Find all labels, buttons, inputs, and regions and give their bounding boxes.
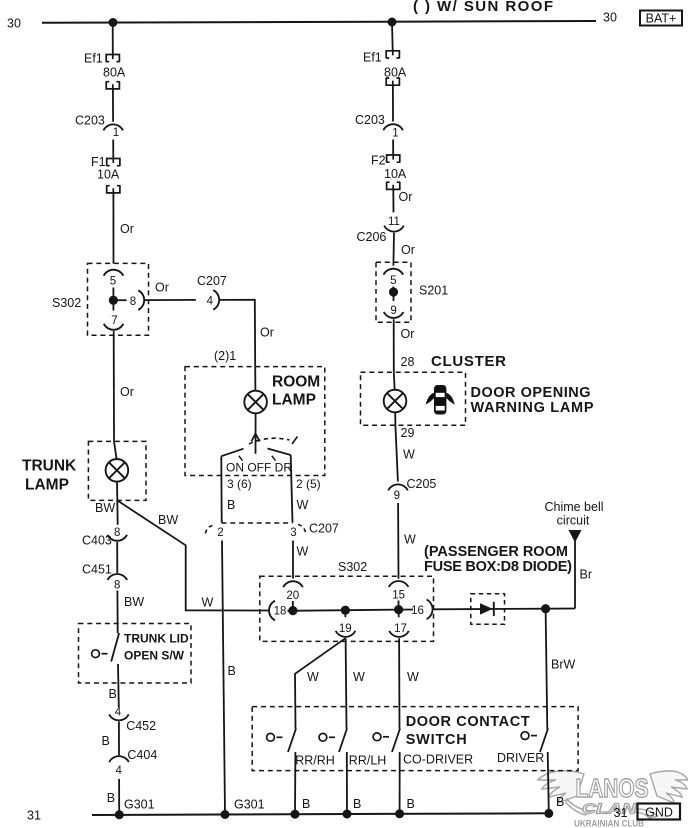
svg-text:8: 8 <box>130 296 136 308</box>
svg-text:C403: C403 <box>82 534 112 548</box>
svg-text:B: B <box>302 797 310 811</box>
svg-text:2: 2 <box>217 527 223 539</box>
svg-text:BW: BW <box>124 595 144 609</box>
svg-text:B: B <box>556 795 564 809</box>
svg-text:4: 4 <box>207 296 214 308</box>
svg-text:29: 29 <box>401 426 415 440</box>
svg-text:Or: Or <box>401 327 415 341</box>
svg-text:C207: C207 <box>197 274 227 288</box>
svg-text:BrW: BrW <box>551 658 576 672</box>
svg-text:16: 16 <box>411 605 424 617</box>
svg-text:7: 7 <box>111 315 117 327</box>
svg-text:5: 5 <box>390 275 396 287</box>
svg-text:B: B <box>228 664 236 678</box>
svg-text:17: 17 <box>394 623 407 635</box>
svg-text:B: B <box>107 791 115 805</box>
svg-text:31: 31 <box>27 809 41 823</box>
svg-text:19: 19 <box>339 623 352 635</box>
svg-text:Chime bell: Chime bell <box>544 500 603 514</box>
svg-text:9: 9 <box>394 490 400 502</box>
svg-text:Ef1: Ef1 <box>363 51 382 65</box>
svg-text:8: 8 <box>114 580 120 592</box>
svg-text:80A: 80A <box>103 66 126 80</box>
svg-text:( ) W/ SUN ROOF: ( ) W/ SUN ROOF <box>413 0 553 15</box>
svg-text:C203: C203 <box>355 113 385 127</box>
svg-text:BW: BW <box>158 513 178 527</box>
svg-text:S302: S302 <box>52 296 81 310</box>
svg-text:20: 20 <box>286 590 299 602</box>
svg-text:Or: Or <box>260 326 274 340</box>
svg-text:W: W <box>407 670 419 684</box>
svg-text:1: 1 <box>113 127 119 139</box>
svg-text:30: 30 <box>603 11 617 25</box>
svg-text:RR/RH: RR/RH <box>295 754 335 768</box>
svg-text:C203: C203 <box>75 114 105 128</box>
svg-text:(2)1: (2)1 <box>214 349 236 363</box>
svg-text:CO-DRIVER: CO-DRIVER <box>403 753 473 767</box>
svg-text:W: W <box>297 498 309 512</box>
svg-text:5: 5 <box>110 276 116 288</box>
svg-text:WARNING LAMP: WARNING LAMP <box>471 400 594 416</box>
svg-text:8: 8 <box>114 527 120 539</box>
svg-text:Or: Or <box>120 222 134 236</box>
svg-text:ON OFF DR: ON OFF DR <box>226 461 292 475</box>
svg-text:28: 28 <box>401 355 415 369</box>
svg-text:W: W <box>297 545 309 559</box>
svg-text:UKRAINIAN CLUB: UKRAINIAN CLUB <box>574 819 644 828</box>
svg-text:BW: BW <box>95 501 115 515</box>
svg-text:SWITCH: SWITCH <box>406 732 467 748</box>
svg-text:W: W <box>307 670 319 684</box>
svg-text:18: 18 <box>274 606 287 618</box>
svg-text:10A: 10A <box>384 167 407 181</box>
svg-text:BAT+: BAT+ <box>646 11 677 25</box>
svg-text:Ef1: Ef1 <box>84 52 103 66</box>
svg-text:CLUSTER: CLUSTER <box>431 353 506 370</box>
svg-text:ROOM: ROOM <box>272 374 320 391</box>
svg-text:Or: Or <box>155 281 169 295</box>
svg-text:4: 4 <box>115 706 122 718</box>
svg-text:W: W <box>404 533 416 547</box>
svg-text:W: W <box>353 670 365 684</box>
svg-text:B: B <box>109 687 117 701</box>
svg-text:Or: Or <box>399 190 413 204</box>
svg-text:S201: S201 <box>419 284 448 298</box>
svg-text:80A: 80A <box>384 66 407 80</box>
svg-text:15: 15 <box>392 590 405 602</box>
svg-text:F2: F2 <box>371 154 386 168</box>
svg-text:(PASSENGER ROOM: (PASSENGER ROOM <box>424 544 568 560</box>
svg-text:TRUNK: TRUNK <box>22 458 77 475</box>
svg-text:DOOR OPENING: DOOR OPENING <box>471 385 591 401</box>
svg-text:1: 1 <box>392 128 398 140</box>
svg-text:W: W <box>202 596 214 610</box>
svg-text:Br: Br <box>580 568 593 582</box>
svg-text:B: B <box>102 734 110 748</box>
svg-text:G301: G301 <box>124 798 155 812</box>
svg-text:DOOR CONTACT: DOOR CONTACT <box>406 714 530 730</box>
svg-text:CLAN: CLAN <box>582 801 637 818</box>
svg-text:B: B <box>227 498 235 512</box>
svg-text:TRUNK LID: TRUNK LID <box>124 632 189 646</box>
svg-text:C207: C207 <box>309 522 339 536</box>
svg-text:OPEN S/W: OPEN S/W <box>124 649 185 663</box>
svg-text:B: B <box>407 797 415 811</box>
svg-text:4: 4 <box>115 765 122 777</box>
svg-text:C206: C206 <box>357 230 387 244</box>
svg-text:RR/LH: RR/LH <box>349 754 387 768</box>
svg-text:GND: GND <box>645 805 673 819</box>
svg-text:C404: C404 <box>127 748 157 762</box>
svg-text:FUSE BOX:D8 DIODE): FUSE BOX:D8 DIODE) <box>424 559 572 575</box>
svg-text:10A: 10A <box>97 168 120 182</box>
svg-text:3: 3 <box>290 527 296 539</box>
svg-text:G301: G301 <box>234 798 265 812</box>
svg-text:Or: Or <box>120 385 134 399</box>
svg-text:circuit: circuit <box>557 514 590 528</box>
svg-text:Or: Or <box>401 243 415 257</box>
svg-text:B: B <box>353 797 361 811</box>
svg-text:LAMP: LAMP <box>272 392 316 409</box>
svg-text:3 (6): 3 (6) <box>227 477 252 491</box>
svg-text:31: 31 <box>614 806 628 820</box>
svg-text:S302: S302 <box>338 560 367 574</box>
svg-text:C451: C451 <box>82 563 112 577</box>
svg-text:30: 30 <box>7 17 21 31</box>
svg-text:DRIVER: DRIVER <box>497 751 544 765</box>
svg-text:11: 11 <box>388 216 400 228</box>
svg-text:2 (5): 2 (5) <box>296 477 321 491</box>
svg-text:9: 9 <box>390 305 396 317</box>
svg-text:C205: C205 <box>407 477 437 491</box>
svg-text:LAMP: LAMP <box>25 477 69 494</box>
svg-text:LANOS: LANOS <box>576 773 649 803</box>
svg-text:W: W <box>403 448 415 462</box>
svg-text:C452: C452 <box>126 719 156 733</box>
